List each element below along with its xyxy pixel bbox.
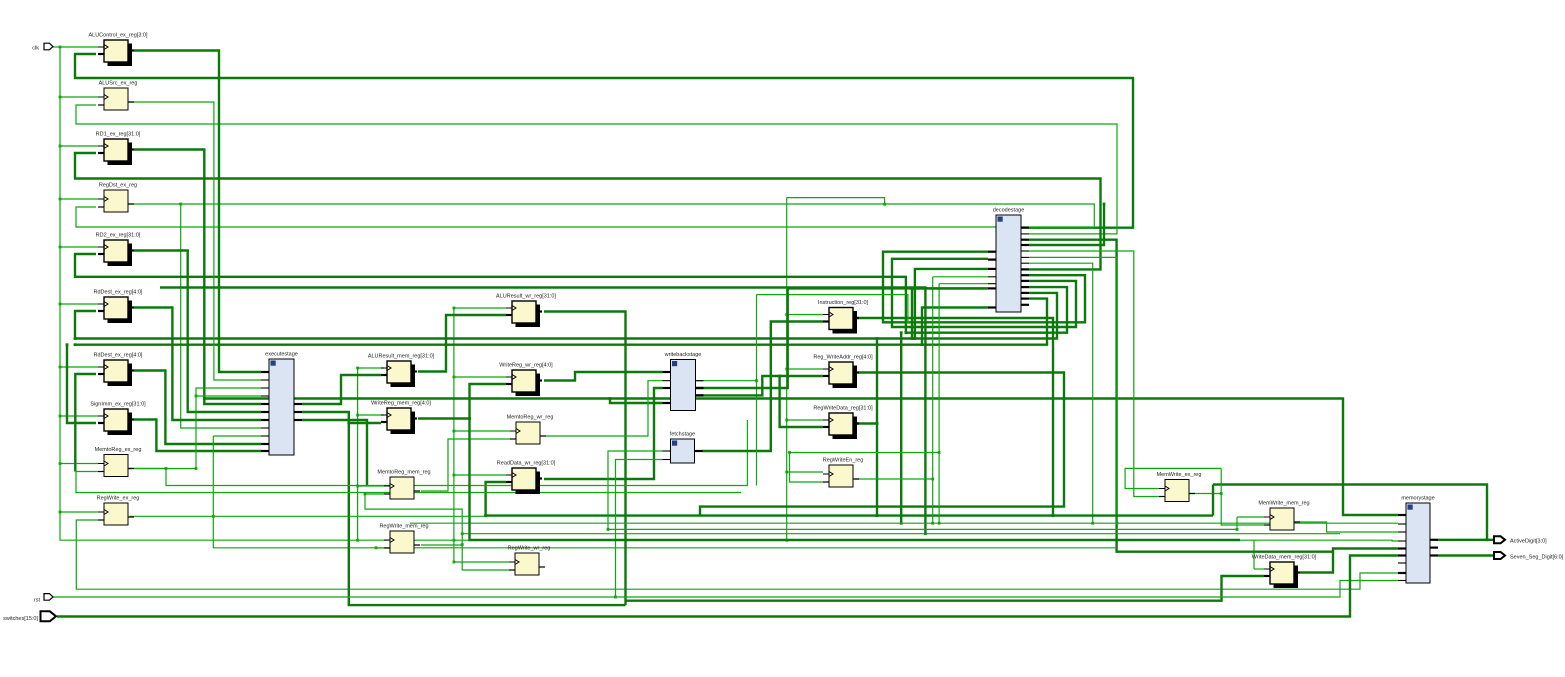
svg-text:ALUControl_ex_reg[3:0]: ALUControl_ex_reg[3:0] — [88, 33, 147, 39]
svg-text:Seven_Seg_Digit[6:0]: Seven_Seg_Digit[6:0] — [1510, 555, 1564, 561]
svg-text:WriteReg_mem_reg[4:0]: WriteReg_mem_reg[4:0] — [371, 401, 431, 407]
svg-text:WriteData_mem_reg[31:0]: WriteData_mem_reg[31:0] — [1252, 555, 1317, 561]
svg-text:writebackstage: writebackstage — [664, 352, 702, 358]
svg-text:RegDst_ex_reg: RegDst_ex_reg — [99, 183, 137, 189]
svg-text:MemWrite_mem_reg: MemWrite_mem_reg — [1258, 501, 1309, 507]
svg-text:RegWriteEn_reg: RegWriteEn_reg — [823, 458, 864, 464]
svg-text:memorystage: memorystage — [1401, 496, 1434, 502]
svg-text:WriteReg_wr_reg[4:0]: WriteReg_wr_reg[4:0] — [499, 363, 553, 369]
svg-text:RD2_ex_reg[31:0]: RD2_ex_reg[31:0] — [96, 233, 141, 239]
svg-text:RegWriteData_reg[31:0]: RegWriteData_reg[31:0] — [813, 406, 873, 412]
svg-text:RD1_ex_reg[31:0]: RD1_ex_reg[31:0] — [96, 132, 141, 138]
svg-text:fetchstage: fetchstage — [670, 432, 695, 438]
svg-text:ReadData_wr_reg[31:0]: ReadData_wr_reg[31:0] — [497, 461, 556, 467]
svg-text:MemtoReg_mem_reg: MemtoReg_mem_reg — [377, 470, 430, 476]
svg-text:switches[15:0]: switches[15:0] — [3, 616, 38, 622]
svg-text:RegWrite_mem_reg: RegWrite_mem_reg — [379, 524, 428, 530]
svg-text:executestage: executestage — [265, 352, 298, 358]
svg-text:Reg_WriteAddr_reg[4:0]: Reg_WriteAddr_reg[4:0] — [813, 355, 873, 361]
svg-text:RdDest_ex_reg[4:0]: RdDest_ex_reg[4:0] — [94, 290, 143, 296]
svg-text:ALUResult_mem_reg[31:0]: ALUResult_mem_reg[31:0] — [368, 354, 435, 360]
svg-text:MemtoReg_ex_reg: MemtoReg_ex_reg — [95, 447, 142, 453]
svg-text:ActiveDigit[3:0]: ActiveDigit[3:0] — [1510, 539, 1547, 545]
svg-text:rst: rst — [34, 598, 41, 604]
svg-text:MemWrite_ex_reg: MemWrite_ex_reg — [1157, 472, 1202, 478]
svg-text:Instruction_reg[31:0]: Instruction_reg[31:0] — [818, 300, 869, 306]
svg-text:RegWrite_ex_reg: RegWrite_ex_reg — [97, 496, 140, 502]
svg-text:MemtoReg_wr_reg: MemtoReg_wr_reg — [507, 415, 554, 421]
svg-text:clk: clk — [32, 46, 39, 52]
svg-text:decodestage: decodestage — [993, 208, 1025, 214]
svg-text:RdDest_ex_reg[4:0]: RdDest_ex_reg[4:0] — [94, 353, 143, 359]
svg-text:ALUSrc_ex_reg: ALUSrc_ex_reg — [99, 81, 138, 87]
svg-text:ALUResult_wr_reg[31:0]: ALUResult_wr_reg[31:0] — [496, 294, 556, 300]
svg-text:RegWrite_wr_reg: RegWrite_wr_reg — [508, 546, 551, 552]
svg-text:SignImm_ex_reg[31:0]: SignImm_ex_reg[31:0] — [90, 402, 146, 408]
